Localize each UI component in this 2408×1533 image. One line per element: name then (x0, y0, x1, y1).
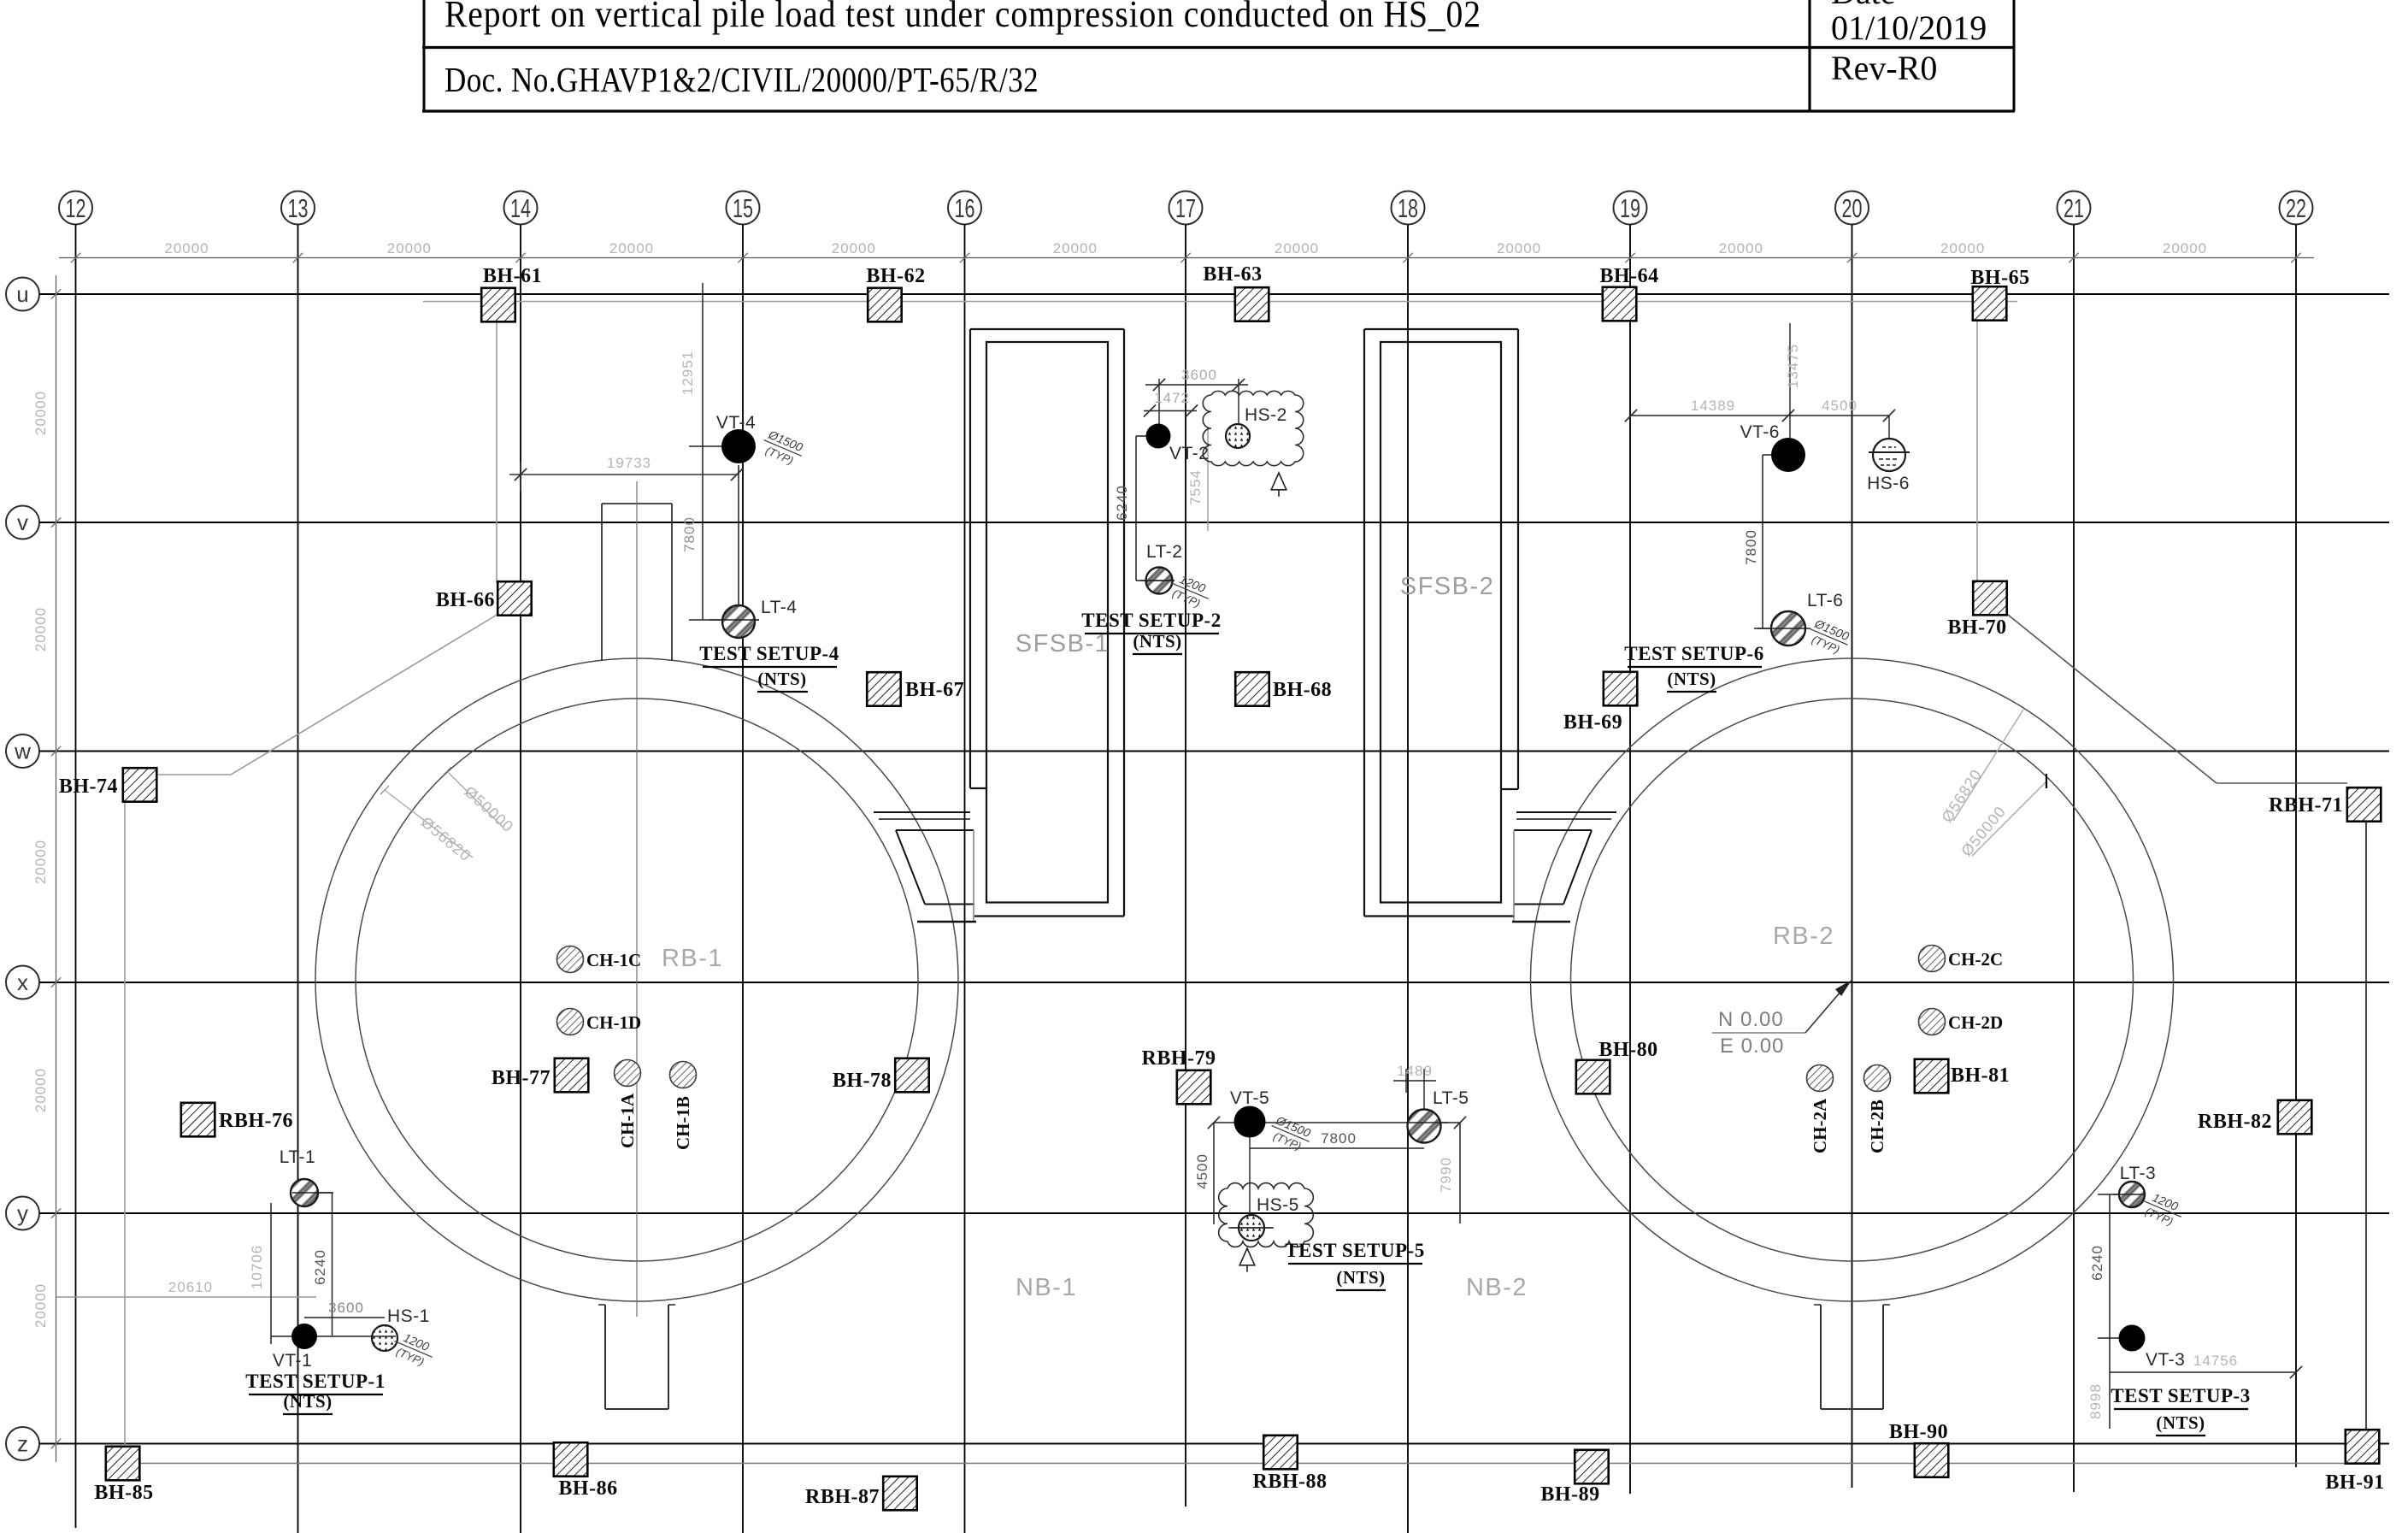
svg-text:CH-2B: CH-2B (1867, 1100, 1887, 1153)
svg-text:SFSB-2: SFSB-2 (1400, 573, 1495, 600)
svg-text:6240: 6240 (312, 1249, 328, 1285)
svg-text:RB-1: RB-1 (662, 945, 723, 972)
svg-text:3600: 3600 (1181, 367, 1217, 383)
svg-text:NB-1: NB-1 (1016, 1274, 1077, 1301)
svg-text:u: u (16, 281, 28, 307)
svg-text:CH-1D: CH-1D (586, 1012, 641, 1033)
svg-text:(NTS): (NTS) (1667, 669, 1716, 689)
svg-text:15: 15 (733, 193, 753, 223)
svg-text:BH-86: BH-86 (558, 1477, 617, 1500)
svg-text:4500: 4500 (1194, 1153, 1210, 1189)
svg-text:20000: 20000 (609, 240, 654, 256)
svg-text:6240: 6240 (1114, 485, 1130, 521)
svg-text:(NTS): (NTS) (1336, 1267, 1385, 1288)
svg-text:x: x (17, 970, 28, 995)
svg-text:BH-68: BH-68 (1273, 679, 1332, 701)
svg-text:BH-70: BH-70 (1947, 616, 2006, 639)
svg-text:21: 21 (2064, 193, 2084, 223)
svg-text:TEST SETUP-6: TEST SETUP-6 (1624, 643, 1763, 664)
svg-text:HS-1: HS-1 (387, 1306, 430, 1326)
svg-text:TEST SETUP-3: TEST SETUP-3 (2111, 1385, 2250, 1406)
svg-text:18: 18 (1398, 193, 1418, 223)
svg-text:BH-77: BH-77 (492, 1067, 550, 1089)
svg-text:CH-1C: CH-1C (586, 950, 641, 970)
svg-text:VT-1: VT-1 (273, 1351, 312, 1371)
svg-text:(NTS): (NTS) (283, 1391, 332, 1412)
svg-text:01/10/2019: 01/10/2019 (1831, 9, 1987, 47)
svg-text:VT-6: VT-6 (1740, 422, 1780, 442)
svg-text:4500: 4500 (1822, 398, 1858, 414)
svg-text:14756: 14756 (2193, 1353, 2238, 1369)
svg-text:7554: 7554 (1187, 469, 1204, 505)
svg-text:BH-61: BH-61 (483, 265, 542, 287)
svg-text:TEST SETUP-4: TEST SETUP-4 (699, 643, 839, 664)
svg-text:v: v (17, 510, 28, 535)
svg-text:BH-89: BH-89 (1540, 1483, 1599, 1506)
svg-text:13: 13 (288, 193, 309, 223)
svg-text:RB-2: RB-2 (1773, 923, 1834, 950)
svg-text:20000: 20000 (32, 840, 49, 884)
svg-text:BH-81: BH-81 (1951, 1064, 2010, 1087)
svg-text:20000: 20000 (1940, 240, 1985, 256)
svg-text:RBH-76: RBH-76 (219, 1110, 293, 1132)
svg-text:VT-5: VT-5 (1230, 1088, 1269, 1108)
svg-text:BH-64: BH-64 (1599, 265, 1658, 287)
svg-text:14389: 14389 (1691, 398, 1735, 414)
svg-text:12: 12 (66, 193, 86, 223)
svg-text:TEST SETUP-1: TEST SETUP-1 (245, 1371, 385, 1392)
svg-text:1472: 1472 (1154, 390, 1190, 406)
svg-text:CH-1A: CH-1A (617, 1093, 638, 1148)
svg-text:12951: 12951 (680, 351, 696, 395)
svg-text:20000: 20000 (832, 240, 876, 256)
svg-text:19: 19 (1620, 193, 1640, 223)
svg-text:20000: 20000 (2163, 240, 2207, 256)
svg-text:RBH-88: RBH-88 (1253, 1471, 1328, 1493)
svg-text:(NTS): (NTS) (757, 669, 806, 689)
svg-text:NB-2: NB-2 (1466, 1274, 1528, 1301)
svg-text:20000: 20000 (1497, 240, 1541, 256)
svg-text:6240: 6240 (2089, 1245, 2105, 1281)
svg-text:BH-69: BH-69 (1563, 711, 1622, 734)
svg-text:20000: 20000 (1275, 240, 1319, 256)
svg-text:Rev-R0: Rev-R0 (1831, 49, 1937, 87)
svg-text:20000: 20000 (164, 240, 209, 256)
svg-text:E 0.00: E 0.00 (1720, 1035, 1784, 1058)
svg-text:HS-5: HS-5 (1257, 1195, 1299, 1215)
svg-text:CH-2A: CH-2A (1810, 1098, 1830, 1153)
svg-text:13475: 13475 (1785, 344, 1801, 388)
svg-text:20000: 20000 (32, 607, 49, 652)
svg-text:17: 17 (1175, 193, 1196, 223)
svg-text:BH-74: BH-74 (59, 775, 118, 798)
svg-text:SFSB-1: SFSB-1 (1016, 630, 1110, 657)
svg-text:TEST SETUP-5: TEST SETUP-5 (1285, 1240, 1424, 1261)
svg-text:BH-67: BH-67 (905, 679, 964, 701)
svg-text:(NTS): (NTS) (1133, 631, 1181, 652)
svg-text:RBH-82: RBH-82 (2198, 1111, 2272, 1133)
svg-text:w: w (14, 739, 31, 764)
svg-text:TEST SETUP-2: TEST SETUP-2 (1081, 610, 1221, 631)
svg-text:RBH-79: RBH-79 (1142, 1047, 1216, 1070)
svg-text:Doc. No.GHAVP1&2/CIVIL/20000/P: Doc. No.GHAVP1&2/CIVIL/20000/PT-65/R/32 (445, 62, 1039, 100)
svg-text:20000: 20000 (1719, 240, 1763, 256)
svg-text:N 0.00: N 0.00 (1718, 1008, 1784, 1031)
svg-text:19733: 19733 (607, 455, 651, 471)
svg-text:BH-91: BH-91 (2325, 1471, 2384, 1494)
svg-text:RBH-71: RBH-71 (2269, 794, 2343, 817)
svg-text:20000: 20000 (387, 240, 432, 256)
svg-text:y: y (17, 1200, 28, 1226)
svg-text:14: 14 (510, 193, 531, 223)
svg-text:16: 16 (955, 193, 975, 223)
svg-text:7800: 7800 (1321, 1130, 1357, 1147)
svg-text:CH-2C: CH-2C (1948, 949, 2003, 970)
svg-text:LT-6: LT-6 (1807, 591, 1843, 610)
svg-text:CH-2D: CH-2D (1948, 1012, 2003, 1033)
svg-text:VT-3: VT-3 (2146, 1350, 2185, 1370)
svg-text:HS-2: HS-2 (1245, 405, 1287, 425)
svg-text:BH-65: BH-65 (1970, 267, 2029, 289)
svg-text:7800: 7800 (681, 516, 698, 552)
svg-text:1489: 1489 (1397, 1063, 1433, 1079)
svg-text:20: 20 (1842, 193, 1863, 223)
svg-text:BH-78: BH-78 (833, 1070, 892, 1092)
svg-text:BH-63: BH-63 (1203, 263, 1262, 286)
svg-text:BH-85: BH-85 (94, 1482, 153, 1504)
svg-text:LT-4: LT-4 (761, 598, 797, 617)
svg-text:VT-4: VT-4 (716, 413, 756, 433)
svg-text:8998: 8998 (2087, 1383, 2104, 1419)
svg-text:BH-90: BH-90 (1889, 1421, 1948, 1443)
svg-text:BH-62: BH-62 (866, 265, 925, 287)
svg-text:20000: 20000 (32, 1283, 49, 1328)
svg-text:LT-3: LT-3 (2120, 1164, 2156, 1183)
svg-text:7990: 7990 (1438, 1157, 1454, 1193)
svg-text:LT-2: LT-2 (1146, 542, 1182, 562)
svg-text:BH-80: BH-80 (1598, 1039, 1657, 1061)
svg-text:Report on vertical pile load t: Report on vertical pile load test under … (445, 0, 1481, 36)
svg-text:LT-5: LT-5 (1433, 1088, 1469, 1108)
svg-text:z: z (17, 1431, 28, 1457)
svg-text:HS-6: HS-6 (1867, 474, 1910, 493)
svg-text:22: 22 (2286, 193, 2306, 223)
svg-text:RBH-87: RBH-87 (805, 1486, 880, 1508)
svg-text:20610: 20610 (168, 1279, 213, 1295)
svg-text:LT-1: LT-1 (280, 1147, 315, 1167)
svg-text:(NTS): (NTS) (2156, 1412, 2205, 1433)
svg-text:10706: 10706 (249, 1245, 265, 1289)
svg-text:BH-66: BH-66 (436, 589, 495, 611)
svg-text:20000: 20000 (32, 1068, 49, 1112)
svg-text:3600: 3600 (328, 1300, 364, 1316)
svg-text:20000: 20000 (1053, 240, 1098, 256)
svg-text:20000: 20000 (32, 391, 49, 435)
svg-text:7800: 7800 (1743, 529, 1759, 565)
svg-text:CH-1B: CH-1B (673, 1096, 693, 1150)
